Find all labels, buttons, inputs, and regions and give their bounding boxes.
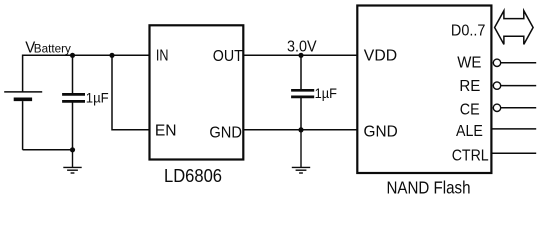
svg-text:1µF: 1µF: [86, 90, 109, 105]
svg-text:NAND Flash: NAND Flash: [387, 177, 471, 197]
svg-text:ALE: ALE: [456, 123, 483, 140]
svg-text:LD6806: LD6806: [164, 166, 222, 186]
svg-text:OUT: OUT: [213, 48, 243, 65]
svg-text:EN: EN: [155, 122, 177, 139]
svg-text:GND: GND: [364, 123, 398, 140]
capacitor C1 plates: [62, 94, 85, 101]
capacitor C1 leads: [72, 55, 74, 150]
capacitor C2 plates: [291, 90, 314, 97]
svg-text:1µF: 1µF: [315, 86, 337, 101]
svg-text:CE: CE: [460, 101, 480, 118]
wire EN tap: [112, 55, 150, 130]
wire WE: [501, 62, 537, 64]
capacitor C2 leads: [300, 55, 302, 130]
wire CE: [501, 107, 537, 109]
wire CTRL: [493, 152, 537, 154]
svg-text:CTRL: CTRL: [452, 148, 489, 165]
svg-text:VDD: VDD: [364, 48, 397, 65]
battery B1: [4, 92, 42, 150]
regulator U1 LD6806 box: [150, 25, 244, 159]
ground G2: [292, 130, 310, 173]
svg-text:D0..7: D0..7: [451, 23, 486, 40]
wire battery bottom to ground node: [23, 149, 73, 151]
node dot EN tap: [109, 53, 114, 58]
pin bubble RE: [493, 82, 500, 89]
svg-text:Battery: Battery: [34, 43, 71, 56]
memory U2 NAND Flash box: [357, 6, 491, 174]
wire ALE: [493, 128, 537, 130]
node dot VBattery/C1: [70, 53, 75, 58]
node dot GND rail: [298, 127, 303, 132]
svg-text:GND: GND: [209, 125, 242, 142]
wire RE: [501, 85, 537, 87]
svg-text:IN: IN: [156, 47, 169, 64]
svg-text:RE: RE: [459, 78, 480, 95]
node dot 3.0V: [298, 53, 303, 58]
data bus arrow D0..7: [495, 11, 533, 45]
wire VBattery top rail to IN: [23, 55, 150, 92]
wire GND rail U1 to U2: [243, 129, 357, 131]
wire OUT to VDD: [243, 54, 357, 56]
ground G1: [63, 150, 81, 173]
node dot bottom left: [70, 147, 75, 152]
svg-text:WE: WE: [457, 55, 481, 72]
svg-text:3.0V: 3.0V: [287, 38, 317, 55]
node VBattery label: [25, 40, 71, 57]
pin bubble WE: [493, 59, 500, 66]
pin bubble CE: [493, 104, 500, 111]
